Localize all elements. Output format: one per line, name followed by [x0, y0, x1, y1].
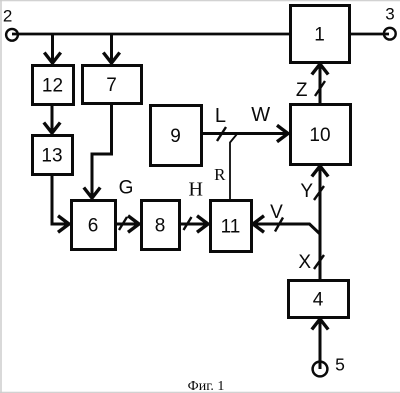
block 13 [33, 136, 73, 175]
bus slash L [217, 127, 226, 141]
block 7 [83, 66, 142, 104]
wire: V branch from X/Y bus into block 11 [255, 224, 321, 234]
terminal 3 [384, 5, 396, 40]
scan border bottom [0, 391, 400, 393]
svg-text:Y: Y [300, 181, 313, 202]
block 11 [211, 201, 252, 252]
bus slash Y [314, 186, 324, 200]
bus slash on G wire [119, 217, 127, 230]
block 10 [291, 105, 351, 165]
svg-text:V: V [270, 202, 283, 223]
svg-text:9: 9 [170, 126, 181, 147]
wire: terminal 5 up to block 4 [319, 321, 322, 370]
svg-text:13: 13 [41, 146, 62, 167]
block 4 [289, 281, 349, 318]
svg-text:H: H [188, 179, 202, 201]
svg-text:L: L [215, 105, 226, 127]
wire: R branch from W bus down to block 11 [230, 134, 237, 199]
svg-text:5: 5 [335, 355, 345, 375]
svg-text:G: G [119, 178, 134, 199]
block 9 [151, 106, 202, 166]
svg-text:7: 7 [106, 75, 117, 96]
block 1 [291, 6, 350, 63]
block 12 [33, 66, 74, 105]
scan border top [0, 0, 400, 2]
block 8 [142, 201, 180, 250]
wire: Z bus, block 10 up to block 1 [319, 65, 322, 104]
wire: top bus drop to block 7 [110, 34, 113, 62]
bus slash X [314, 255, 324, 269]
wire: block 8 to block 11 [179, 223, 207, 226]
wire: block 9 to block 10 (L / W bus) [201, 132, 287, 135]
svg-text:R: R [214, 165, 226, 184]
svg-text:12: 12 [42, 76, 63, 97]
svg-text:W: W [251, 104, 270, 126]
svg-text:Z: Z [296, 80, 308, 101]
bus slash on H wire [184, 217, 192, 230]
terminal 5 [313, 355, 345, 377]
scan border left [0, 0, 2, 393]
svg-text:2: 2 [3, 7, 12, 26]
wire: terminal 2 to block 1 (top bus) [12, 33, 289, 36]
svg-text:1: 1 [314, 25, 325, 46]
svg-text:6: 6 [88, 216, 99, 237]
wire: block 1 to terminal 3 [349, 33, 389, 36]
svg-text:10: 10 [309, 125, 330, 146]
block 6 [72, 201, 116, 250]
svg-text:4: 4 [313, 290, 324, 311]
svg-text:11: 11 [221, 217, 241, 238]
wire: block 7 down with jog into block 6 [92, 103, 112, 197]
svg-text:X: X [298, 252, 311, 273]
wire: block 6 to block 8 [115, 223, 138, 226]
wire: block 12 to block 13 [51, 104, 54, 132]
wire: X/Y bus, block 4 up to block 10 [319, 168, 322, 281]
svg-text:Фиг. 1: Фиг. 1 [188, 379, 225, 393]
svg-text:3: 3 [385, 5, 394, 24]
svg-text:8: 8 [155, 216, 166, 237]
wire: block 13 down and right into block 6 [52, 174, 68, 224]
bus slash V [275, 218, 283, 232]
wire: top bus drop to block 12 [51, 34, 54, 62]
bus slash Z [315, 81, 325, 96]
terminal 2 [3, 7, 18, 41]
